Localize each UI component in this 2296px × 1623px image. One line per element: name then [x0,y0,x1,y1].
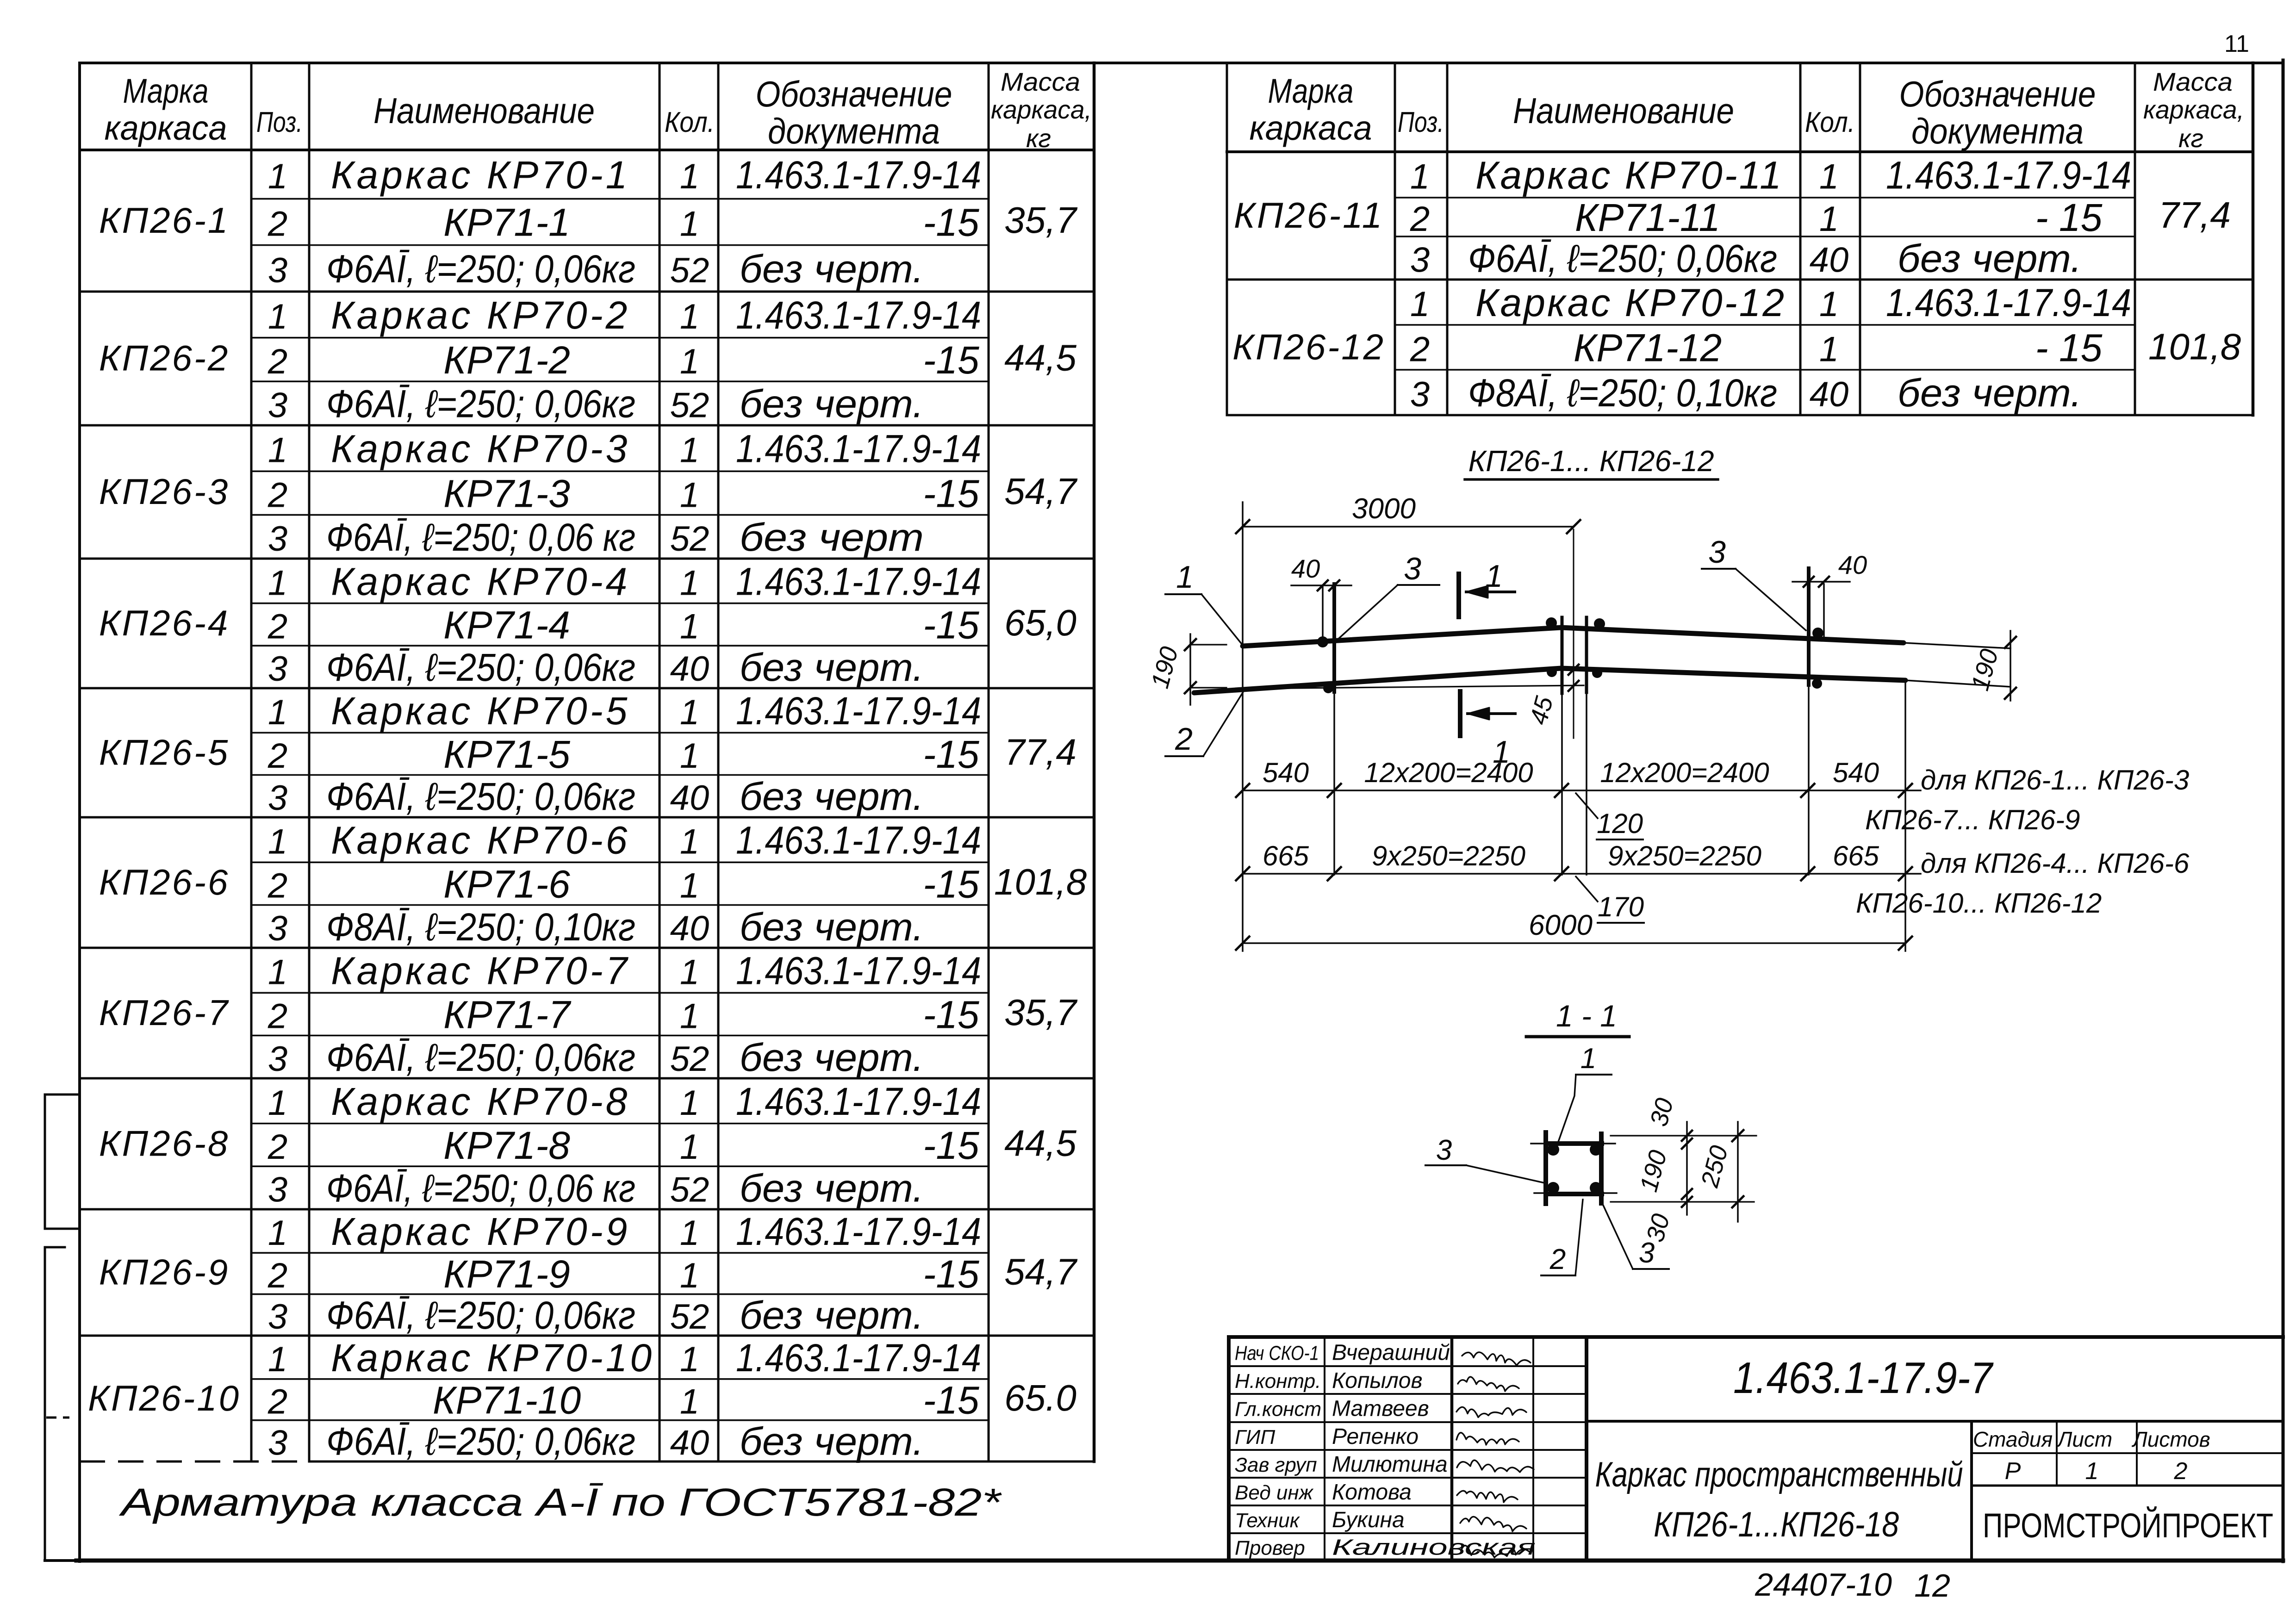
svg-text:12х200=2400: 12х200=2400 [1600,757,1769,788]
svg-text:ПРОМСТРОЙПРОЕКТ: ПРОМСТРОЙПРОЕКТ [1983,1506,2273,1545]
svg-text:3: 3 [1639,1237,1655,1269]
svg-text:КП26-1... КП26-12: КП26-1... КП26-12 [1468,444,1714,478]
svg-text:2: 2 [2174,1458,2188,1485]
svg-text:Ф8АĪ, ℓ=250; 0,10кг: Ф8АĪ, ℓ=250; 0,10кг [1468,371,1777,415]
svg-text:1: 1 [680,431,699,470]
svg-text:1: 1 [680,1382,699,1421]
svg-text:1: 1 [268,563,287,603]
svg-text:без черт.: без черт. [740,905,924,949]
svg-text:Масса: Масса [2153,67,2233,96]
label 120 [1576,793,1643,839]
svg-text:КП26-11: КП26-11 [1234,195,1384,236]
svg-text:2: 2 [268,736,287,776]
svg-text:Обозначение: Обозначение [756,74,952,114]
svg-text:-15: -15 [923,603,979,647]
svg-text:Букина: Букина [1332,1508,1405,1532]
svg-text:2: 2 [1549,1244,1566,1275]
svg-text:1: 1 [1410,157,1430,197]
svg-text:1: 1 [268,1083,287,1123]
svg-text:2: 2 [268,607,287,646]
svg-text:Наименование: Наименование [1513,90,1734,131]
left table group КП26-8 [99,1080,1077,1210]
svg-text:1.463.1-17.9-14: 1.463.1-17.9-14 [736,427,981,471]
left table group КП26-7 [99,949,1078,1079]
svg-text:1.463.1-17.9-14: 1.463.1-17.9-14 [736,153,981,197]
right table header [1250,67,2245,153]
svg-text:Провер: Провер [1235,1537,1305,1560]
svg-text:1: 1 [680,157,699,196]
svg-text:документа: документа [768,111,940,151]
svg-text:КР71-5: КР71-5 [443,733,570,776]
svg-text:1: 1 [680,1213,699,1253]
svg-text:без черт.: без черт. [740,1419,924,1463]
svg-text:Каркас КР70-10: Каркас КР70-10 [331,1336,654,1380]
note для КП26-1...КП26-3 [1865,765,2189,835]
svg-text:3: 3 [268,778,287,818]
svg-text:540: 540 [1833,757,1879,788]
beam bottom chord [1194,668,1905,693]
svg-text:КР71-1: КР71-1 [443,201,570,244]
svg-text:КП26-1: КП26-1 [99,200,230,241]
svg-text:1: 1 [268,431,287,470]
svg-text:Копылов: Копылов [1332,1368,1423,1393]
svg-text:Ф6АĪ, ℓ=250; 0,06кг: Ф6АĪ, ℓ=250; 0,06кг [326,247,635,291]
svg-text:-15: -15 [923,733,979,776]
svg-text:кг: кг [1026,124,1051,153]
svg-text:2: 2 [1410,199,1430,239]
svg-text:1: 1 [680,953,699,992]
doc code 24407-10 12 [1755,1567,1950,1604]
section stirrup square [1531,1132,1617,1204]
label 170 [1576,877,1644,923]
centre axis line [1573,529,1574,738]
svg-text:Каркас КР70-4: Каркас КР70-4 [331,560,630,603]
svg-text:1: 1 [1819,330,1839,369]
svg-text:1: 1 [268,1213,287,1253]
section mark 1 lower [1460,691,1515,770]
svg-text:Поз.: Поз. [256,106,303,138]
svg-text:Ф6АĪ, ℓ=250; 0,06кг: Ф6АĪ, ℓ=250; 0,06кг [326,1036,635,1079]
svg-text:без черт: без черт [740,516,924,559]
svg-text:Каркас КР70-5: Каркас КР70-5 [331,689,630,733]
svg-text:40: 40 [670,778,709,818]
svg-text:Ф6АĪ, ℓ=250; 0,06кг: Ф6АĪ, ℓ=250; 0,06кг [326,382,635,426]
svg-text:Каркас КР70-9: Каркас КР70-9 [331,1210,630,1253]
label 1 top-left [1165,560,1243,645]
binding bracket upper [45,1094,80,1229]
svg-text:Ф8АĪ, ℓ=250; 0,10кг: Ф8АĪ, ℓ=250; 0,10кг [326,905,635,949]
svg-text:Стадия: Стадия [1973,1427,2053,1451]
svg-text:Техник: Техник [1235,1509,1300,1532]
svg-text:1: 1 [1176,560,1194,595]
left table group КП26-4 [99,560,1076,689]
svg-text:каркаса,: каркаса, [2143,95,2244,124]
svg-text:Наименование: Наименование [373,90,595,131]
svg-text:12х200=2400: 12х200=2400 [1364,757,1533,788]
svg-text:40: 40 [1810,375,1849,414]
svg-text:Нач СКО-1: Нач СКО-1 [1235,1342,1319,1365]
svg-text:1.463.1-17.9-14: 1.463.1-17.9-14 [736,1210,981,1253]
svg-text:каркаса,: каркаса, [991,95,1092,124]
svg-text:101,8: 101,8 [994,861,1087,902]
right table group КП26-12 [1232,281,2241,415]
svg-text:Поз.: Поз. [1398,106,1444,138]
title block staff grid [1229,1337,1587,1561]
svg-text:52: 52 [670,519,709,559]
svg-text:КР71-6: КР71-6 [443,862,570,906]
svg-text:665: 665 [1833,840,1879,871]
left table group КП26-9 [99,1210,1078,1337]
left table group КП26-5 [99,689,1076,818]
svg-text:3000: 3000 [1352,493,1416,525]
svg-text:6000: 6000 [1529,909,1593,941]
svg-text:для КП26-4... КП26-6: для КП26-4... КП26-6 [1921,848,2190,879]
section dims 30-190-30 [1611,1095,1756,1245]
svg-text:без черт.: без черт. [740,247,924,291]
svg-text:40: 40 [1291,554,1320,583]
svg-text:без черт.: без черт. [740,382,924,426]
svg-text:Каркас КР70-12: Каркас КР70-12 [1475,281,1786,324]
svg-text:Листов: Листов [2131,1427,2210,1451]
svg-text:КП26-1...КП26-18: КП26-1...КП26-18 [1654,1505,1899,1544]
svg-text:1: 1 [268,953,287,992]
svg-text:1: 1 [1819,199,1839,239]
svg-text:КР71-11: КР71-11 [1575,196,1720,239]
svg-text:40: 40 [670,909,709,948]
svg-text:каркаса: каркаса [105,109,227,147]
svg-text:1: 1 [680,475,699,515]
svg-text:3: 3 [268,251,287,290]
svg-text:Каркас КР70-3: Каркас КР70-3 [331,427,630,471]
dimension 190 right [1966,631,2016,701]
svg-text:1: 1 [680,1083,699,1123]
svg-text:3: 3 [1410,375,1430,414]
svg-text:КП26-10: КП26-10 [88,1378,241,1418]
svg-text:1: 1 [680,563,699,603]
svg-text:1: 1 [680,342,699,381]
svg-text:-15: -15 [923,993,979,1036]
svg-text:540: 540 [1263,757,1309,788]
svg-text:1: 1 [680,866,699,905]
svg-text:44,5: 44,5 [1004,337,1076,379]
svg-text:1.463.1-17.9-14: 1.463.1-17.9-14 [736,819,981,862]
section label 3 bottom [1602,1203,1669,1269]
svg-text:Каркас КР70-6: Каркас КР70-6 [331,819,630,862]
svg-text:2: 2 [1410,330,1430,369]
svg-text:40: 40 [1838,550,1867,579]
svg-text:Милютина: Милютина [1332,1452,1448,1477]
svg-text:52: 52 [670,386,709,425]
svg-text:2: 2 [268,1256,287,1295]
svg-text:1.463.1-17.9-14: 1.463.1-17.9-14 [736,949,981,993]
svg-text:-15: -15 [923,1124,979,1167]
svg-text:Каркас пространственный: Каркас пространственный [1595,1455,1963,1494]
svg-text:40: 40 [670,1423,709,1462]
dimension 6000 [1236,909,1912,950]
svg-text:77,4: 77,4 [2159,194,2231,236]
right table group КП26-11 [1234,154,2231,280]
svg-text:54,7: 54,7 [1004,1251,1077,1293]
svg-text:Кол.: Кол. [665,106,715,138]
svg-text:кг: кг [2178,124,2203,153]
svg-text:КП26-12: КП26-12 [1232,327,1385,367]
svg-text:1.463.1-17.9-14: 1.463.1-17.9-14 [736,293,981,337]
svg-text:1: 1 [680,736,699,776]
svg-text:65,0: 65,0 [1004,602,1076,643]
svg-text:40: 40 [1810,241,1849,280]
svg-text:-15: -15 [923,1252,979,1296]
svg-text:КР71-12: КР71-12 [1574,326,1722,370]
svg-text:3: 3 [268,386,287,425]
svg-text:для КП26-1... КП26-3: для КП26-1... КП26-3 [1921,765,2189,796]
svg-text:101,8: 101,8 [2148,326,2241,367]
svg-text:без черт.: без черт. [1898,237,2082,280]
svg-text:1: 1 [1410,285,1430,324]
svg-text:Н.контр.: Н.контр. [1235,1370,1321,1393]
svg-text:КП26-9: КП26-9 [99,1252,230,1293]
svg-text:Ф6АĪ, ℓ=250; 0,06кг: Ф6АĪ, ℓ=250; 0,06кг [326,646,635,689]
svg-text:-15: -15 [923,338,979,382]
document number 1.463.1-17.9-7 [1587,1353,2283,1421]
dimension 40 right [1792,550,1867,587]
svg-text:40: 40 [670,649,709,689]
left table header [105,67,1092,153]
section mark 1 upper [1459,559,1515,617]
svg-text:Каркас КР70-7: Каркас КР70-7 [331,949,630,993]
label 3 right stirrup [1702,535,1806,630]
svg-text:3: 3 [1410,241,1430,280]
svg-text:52: 52 [670,1170,709,1210]
svg-text:каркаса: каркаса [1250,109,1372,147]
svg-text:1: 1 [268,822,287,862]
svg-text:Ф6АĪ, ℓ=250; 0,06кг: Ф6АĪ, ℓ=250; 0,06кг [326,775,635,818]
svg-text:44,5: 44,5 [1004,1123,1076,1164]
svg-text:1: 1 [268,297,287,336]
svg-text:Гл.конст: Гл.конст [1235,1398,1321,1421]
svg-text:2: 2 [268,1127,287,1167]
svg-text:2: 2 [268,1382,287,1421]
svg-text:без черт.: без черт. [740,1293,924,1337]
section dim 250 [1696,1122,1743,1222]
svg-text:КП26-10... КП26-12: КП26-10... КП26-12 [1856,888,2102,919]
svg-text:1.463.1-17.9-14: 1.463.1-17.9-14 [736,689,981,733]
svg-text:Ф6АĪ, ℓ=250; 0,06 кг: Ф6АĪ, ℓ=250; 0,06 кг [326,516,635,559]
svg-text:1.463.1-17.9-14: 1.463.1-17.9-14 [1886,154,2131,197]
svg-text:1: 1 [680,1127,699,1167]
промстройпроект [1983,1506,2273,1545]
svg-text:1: 1 [1485,559,1503,594]
svg-text:КР71-10: КР71-10 [433,1378,581,1422]
svg-text:КП26-3: КП26-3 [99,471,230,512]
svg-text:3: 3 [268,1170,287,1210]
svg-text:3: 3 [1708,535,1726,570]
svg-text:665: 665 [1263,840,1309,871]
svg-text:3: 3 [268,519,287,559]
svg-text:1: 1 [268,693,287,732]
right table grid [1227,63,2253,415]
label 3 left stirrup [1338,551,1439,640]
svg-text:Каркас КР70-8: Каркас КР70-8 [331,1080,630,1123]
svg-text:КП26-5: КП26-5 [99,732,230,773]
svg-text:без черт.: без черт. [740,646,924,689]
bottom reference line [1244,685,1584,689]
svg-text:Кол.: Кол. [1805,106,1855,138]
svg-text:Вчерашний: Вчерашний [1332,1341,1450,1365]
svg-text:170: 170 [1598,891,1644,922]
svg-text:Лист: Лист [2056,1427,2112,1451]
svg-text:-15: -15 [923,472,979,515]
svg-text:без черт.: без черт. [740,1036,924,1079]
svg-text:КП26-4: КП26-4 [99,603,230,643]
note армаtura class [118,1480,1002,1524]
svg-text:9х250=2250: 9х250=2250 [1608,840,1761,871]
section label 2 [1541,1200,1583,1275]
svg-text:1.463.1-17.9-14: 1.463.1-17.9-14 [1886,281,2131,324]
left table grid [80,63,1094,1461]
svg-text:Марка: Марка [1268,72,1354,110]
left table group КП26-10 [88,1336,1076,1463]
svg-text:11: 11 [2224,31,2249,57]
binding bracket lower [45,1247,76,1561]
svg-text:3: 3 [268,649,287,689]
title каркас пространственный [1595,1421,1972,1561]
svg-text:2: 2 [268,342,287,381]
svg-text:120: 120 [1597,808,1643,839]
svg-text:2: 2 [268,205,287,244]
svg-text:Арматура класса А-Ī по Г: Арматура класса А-Ī по ГОСТ5781-82* [118,1480,1002,1524]
stirrup 3 left [1317,584,1334,875]
beam top chord [1243,628,1904,646]
page number 11 [2224,31,2249,57]
svg-text:-15: -15 [923,201,979,244]
svg-text:Обозначение: Обозначение [1899,74,2096,114]
svg-text:Калиновская: Калиновская [1332,1536,1536,1560]
svg-text:- 15: - 15 [2035,326,2103,370]
svg-text:Ф6АĪ, ℓ=250; 0,06кг: Ф6АĪ, ℓ=250; 0,06кг [326,1293,635,1337]
svg-text:1: 1 [680,693,699,732]
svg-text:3: 3 [268,1423,287,1462]
svg-text:КП26-6: КП26-6 [99,862,230,902]
svg-text:Каркас КР70-1: Каркас КР70-1 [331,153,630,197]
svg-text:КП26-8: КП26-8 [99,1123,230,1164]
svg-text:9х250=2250: 9х250=2250 [1372,840,1525,871]
svg-text:1.463.1-17.9-14: 1.463.1-17.9-14 [736,1336,981,1380]
svg-text:77,4: 77,4 [1004,732,1076,773]
svg-text:1: 1 [1819,285,1839,324]
svg-text:52: 52 [670,251,709,290]
svg-text:3: 3 [1436,1134,1452,1166]
svg-text:КР71-4: КР71-4 [443,603,570,647]
svg-text:1: 1 [1580,1043,1596,1075]
left table group КП26-1 [99,153,1078,291]
svg-text:1: 1 [268,1340,287,1379]
dimension 45 centre [1524,665,1579,728]
svg-text:Ф6АĪ, ℓ=250; 0,06кг: Ф6АĪ, ℓ=250; 0,06кг [326,1419,635,1463]
svg-text:2: 2 [1175,721,1193,757]
svg-text:1: 1 [680,822,699,862]
svg-text:35,7: 35,7 [1004,199,1077,241]
svg-text:без черт.: без черт. [740,1167,924,1210]
svg-text:3: 3 [268,909,287,948]
svg-text:документа: документа [1911,111,2084,151]
svg-text:Р: Р [2005,1458,2021,1485]
стадия лист листов [1972,1421,2283,1486]
svg-text:12: 12 [1914,1567,1950,1604]
svg-text:1: 1 [680,297,699,336]
dimension row 540-2400 [1236,646,1921,951]
dimension 3000 [1236,493,1580,646]
dimension row 665-2250 [1236,840,1921,880]
svg-text:КР71-7: КР71-7 [443,993,572,1036]
title block staff names [1235,1341,1536,1560]
svg-text:Масса: Масса [1001,67,1080,96]
svg-text:3: 3 [268,1297,287,1337]
svg-text:Ф6АĪ, ℓ=250; 0,06 кг: Ф6АĪ, ℓ=250; 0,06 кг [326,1167,635,1210]
svg-text:КР71-2: КР71-2 [443,338,570,382]
svg-text:1: 1 [1819,157,1839,197]
stirrup 3 centre pair [1546,617,1605,875]
beam end extension lines right [1904,643,2010,687]
left table group КП26-6 [99,819,1087,949]
svg-text:1: 1 [2085,1458,2099,1485]
label 2 bottom-left [1165,690,1244,757]
dimension 40 left [1291,554,1351,591]
svg-text:54,7: 54,7 [1004,471,1077,512]
svg-text:1: 1 [680,607,699,646]
stirrup 3 right [1809,568,1824,875]
diagram title КП26-1...КП26-12 [1465,444,1718,479]
svg-text:2: 2 [268,996,287,1036]
svg-text:1.463.1-17.9-14: 1.463.1-17.9-14 [736,560,981,603]
svg-text:без черт.: без черт. [1898,371,2082,415]
svg-text:Каркас КР70-11: Каркас КР70-11 [1475,154,1783,197]
svg-text:КП26-7: КП26-7 [99,992,230,1033]
left table group КП26-3 [99,427,1078,559]
svg-text:1.463.1-17.9-14: 1.463.1-17.9-14 [736,1080,981,1123]
section label 1 [1558,1043,1612,1143]
svg-text:Каркас КР70-2: Каркас КР70-2 [331,293,630,337]
svg-text:3: 3 [1404,551,1421,586]
dimension 190 left [1146,634,1226,705]
svg-text:3: 3 [268,1039,287,1079]
left table group КП26-2 [99,293,1077,426]
svg-text:- 15: - 15 [2035,196,2103,239]
title block frame [1229,1337,2283,1561]
svg-text:КП26-7... КП26-9: КП26-7... КП26-9 [1865,804,2080,835]
note для КП26-4...КП26-6 [1856,848,2190,919]
svg-text:1: 1 [680,1340,699,1379]
svg-text:Марка: Марка [123,72,209,110]
svg-text:2: 2 [268,866,287,905]
svg-text:2: 2 [268,475,287,515]
svg-text:1: 1 [680,996,699,1036]
svg-text:Котова: Котова [1332,1480,1412,1505]
svg-text:1: 1 [680,205,699,244]
svg-text:24407-10: 24407-10 [1755,1567,1892,1603]
section 1-1 title [1526,999,1629,1037]
svg-text:Ф6АĪ, ℓ=250; 0,06кг: Ф6АĪ, ℓ=250; 0,06кг [1468,237,1777,280]
svg-text:Репенко: Репенко [1332,1424,1419,1449]
svg-text:Вед инж: Вед инж [1235,1481,1314,1504]
svg-text:ГИП: ГИП [1235,1426,1275,1449]
svg-text:1: 1 [268,157,287,196]
svg-text:КР71-3: КР71-3 [443,472,570,515]
svg-text:КП26-2: КП26-2 [99,338,230,379]
svg-text:КР71-9: КР71-9 [443,1252,570,1296]
svg-text:Матвеев: Матвеев [1332,1397,1429,1421]
svg-text:без черт.: без черт. [740,775,924,818]
svg-text:КР71-8: КР71-8 [443,1124,570,1167]
